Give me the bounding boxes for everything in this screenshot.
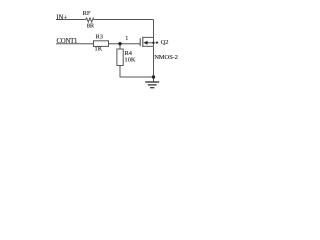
resistor RF [86, 18, 95, 22]
junction node 1 dot [118, 42, 121, 45]
wire source down [153, 46, 155, 82]
svg-text:Q2: Q2 [161, 39, 169, 46]
part marker diamond Q2 [155, 41, 158, 44]
svg-text:R3: R3 [96, 34, 103, 41]
wire CONT1 to R3 [56, 43, 94, 45]
svg-text:1K: 1K [95, 45, 103, 52]
wire R4 drop [119, 44, 121, 49]
svg-text:CONT1: CONT1 [57, 38, 78, 45]
transistor Q2 gate bar [139, 38, 141, 46]
transistor Q2 bulk arrow [143, 41, 147, 45]
ground [145, 81, 159, 83]
wire R4 bottom [120, 66, 154, 78]
junction ground dot [152, 75, 155, 78]
svg-text:10K: 10K [125, 56, 136, 63]
transistor Q2 channel bar [142, 37, 144, 47]
wire drain vertical [153, 20, 155, 38]
svg-text:1: 1 [125, 36, 128, 42]
wire top rail right of RF [94, 19, 154, 21]
node IN+ : wire top rail left of RF [56, 19, 86, 21]
wire R3 to gate [109, 43, 141, 45]
svg-text:IN+: IN+ [56, 14, 67, 21]
transistor Q2 right vertical [153, 37, 155, 46]
transistor Q2 source lead [143, 45, 154, 47]
svg-text:8R: 8R [87, 23, 95, 30]
svg-text:NMOS-2: NMOS-2 [154, 54, 178, 61]
resistor R3 [94, 41, 109, 47]
svg-text:RF: RF [83, 10, 91, 17]
resistor R4 [117, 49, 123, 66]
transistor Q2 drain lead [143, 36, 154, 38]
transistor Q2 bulk lead [147, 42, 154, 44]
junction source-bulk dot [152, 42, 154, 44]
